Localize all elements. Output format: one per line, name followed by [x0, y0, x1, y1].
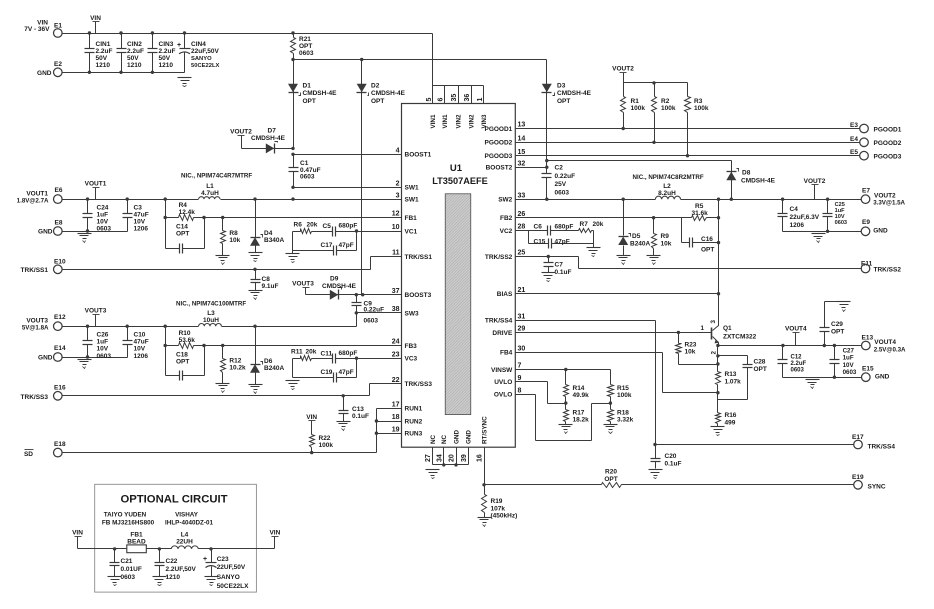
svg-text:100k: 100k	[617, 392, 632, 399]
svg-text:GND: GND	[466, 430, 473, 444]
svg-text:CMDSH-4E: CMDSH-4E	[557, 90, 592, 97]
svg-text:R18: R18	[617, 410, 629, 417]
terminal E15	[862, 365, 890, 381]
svg-text:OPT: OPT	[604, 476, 617, 483]
svg-text:R14: R14	[573, 385, 585, 392]
svg-text:R2: R2	[661, 98, 670, 105]
svg-text:C3: C3	[134, 204, 143, 211]
svg-text:3: 3	[710, 320, 717, 324]
node VOUT2 label at D7	[230, 129, 252, 149]
svg-text:50CE22LX: 50CE22LX	[191, 63, 219, 69]
wire TRK/SS4 route	[653, 321, 853, 447]
svg-text:C22: C22	[166, 558, 178, 565]
svg-text:E4: E4	[850, 136, 858, 143]
svg-text:CIN1: CIN1	[96, 41, 111, 48]
svg-text:R10: R10	[179, 330, 191, 337]
inductor L1	[199, 183, 220, 199]
svg-text:C5: C5	[323, 223, 332, 230]
svg-text:VOUT3: VOUT3	[85, 308, 107, 315]
svg-text:R20: R20	[605, 469, 617, 476]
svg-text:36: 36	[464, 94, 471, 102]
svg-text:R16: R16	[725, 412, 737, 419]
svg-text:R4: R4	[179, 202, 188, 209]
svg-text:0603: 0603	[364, 318, 379, 325]
svg-text:+: +	[177, 42, 181, 49]
svg-text:C20: C20	[665, 453, 677, 460]
node TRK/SS3 label	[21, 394, 49, 401]
ground under C20	[649, 470, 663, 479]
svg-text:OPT: OPT	[701, 247, 714, 254]
ground under C13	[337, 422, 351, 431]
svg-text:1206: 1206	[134, 353, 149, 360]
svg-text:C14: C14	[176, 224, 188, 231]
svg-text:E18: E18	[54, 441, 66, 448]
node GND label E8	[38, 229, 53, 236]
ferrite bead FB1	[127, 532, 147, 553]
svg-text:D2: D2	[371, 83, 380, 90]
svg-text:0603: 0603	[791, 367, 805, 373]
ground under R17	[559, 425, 573, 434]
svg-text:BOOST1: BOOST1	[405, 152, 432, 159]
capacitor C9	[352, 295, 385, 325]
svg-text:3.32k: 3.32k	[617, 417, 634, 424]
node VOUT2 tick right	[804, 178, 826, 200]
terminal E11	[861, 260, 901, 273]
terminal E16	[54, 385, 66, 401]
svg-text:49.9k: 49.9k	[573, 392, 590, 399]
node VOUT3 tick	[85, 308, 107, 327]
svg-text:2.2UF,50V: 2.2UF,50V	[166, 566, 197, 573]
svg-text:E6: E6	[55, 187, 63, 194]
terminal E17	[852, 434, 895, 451]
svg-text:1206: 1206	[134, 226, 149, 233]
svg-text:E15: E15	[862, 365, 874, 372]
svg-text:22: 22	[392, 377, 400, 384]
capacitor CIN4 (polarized)	[177, 34, 219, 73]
svg-text:2.2uF: 2.2uF	[96, 48, 113, 55]
svg-text:53.6k: 53.6k	[179, 337, 196, 344]
svg-text:0603: 0603	[843, 369, 857, 376]
svg-text:SANYO: SANYO	[217, 574, 240, 581]
ground at VOUT2 output	[812, 234, 826, 243]
capacitor C17 loop	[293, 229, 359, 255]
svg-text:47pF: 47pF	[339, 242, 354, 249]
terminal E6	[54, 187, 63, 203]
svg-text:TRK/SS1: TRK/SS1	[21, 267, 49, 274]
svg-text:TRK/SS2: TRK/SS2	[485, 254, 513, 261]
ground under C26 rail	[78, 360, 92, 369]
svg-text:PGOOD3: PGOOD3	[874, 154, 902, 161]
ground under C7	[542, 273, 556, 282]
svg-text:1: 1	[477, 98, 484, 102]
svg-text:16: 16	[477, 454, 484, 462]
diode D9	[306, 276, 402, 300]
svg-text:17: 17	[392, 401, 400, 408]
svg-text:D7: D7	[268, 128, 277, 135]
capacitor C13	[339, 396, 370, 422]
svg-text:31.6k: 31.6k	[692, 210, 709, 217]
svg-text:SW1: SW1	[405, 197, 419, 204]
svg-text:680pF: 680pF	[339, 350, 358, 357]
svg-text:C8: C8	[262, 276, 271, 283]
svg-text:0603: 0603	[299, 50, 314, 57]
svg-text:47uF: 47uF	[134, 211, 149, 218]
svg-text:VIN1: VIN1	[430, 114, 437, 128]
node VOUT3 label at D9	[292, 281, 314, 295]
svg-text:4: 4	[396, 148, 400, 155]
diode D7	[242, 128, 294, 154]
svg-text:B340A: B340A	[264, 237, 285, 244]
capacitor C22	[155, 549, 197, 582]
svg-text:28: 28	[518, 224, 526, 231]
svg-text:SYNC: SYNC	[868, 484, 886, 491]
svg-text:15: 15	[518, 149, 526, 156]
wire input GND rail	[62, 71, 185, 74]
capacitor C25	[823, 200, 848, 232]
svg-text:30: 30	[518, 345, 526, 352]
svg-text:D6: D6	[264, 358, 273, 365]
svg-text:IHLP-4040DZ-01: IHLP-4040DZ-01	[165, 520, 213, 527]
diode D3	[542, 60, 592, 168]
svg-text:39: 39	[461, 454, 468, 462]
svg-text:37: 37	[392, 288, 400, 295]
node NIC L3 label	[176, 301, 246, 308]
svg-text:GND: GND	[875, 374, 890, 381]
svg-text:VOUT2: VOUT2	[230, 129, 252, 136]
ground under R16	[711, 427, 725, 436]
svg-text:NIC., NPIM74C8R2MTRF: NIC., NPIM74C8R2MTRF	[633, 174, 704, 181]
svg-text:OPT: OPT	[299, 43, 312, 50]
svg-text:GND: GND	[873, 228, 888, 235]
svg-text:R15: R15	[617, 385, 629, 392]
svg-text:2: 2	[711, 351, 718, 355]
svg-text:1210: 1210	[159, 62, 174, 69]
wire BOOST2/D8 line	[545, 159, 731, 169]
svg-text:C18: C18	[176, 352, 188, 359]
svg-text:SANYO: SANYO	[191, 56, 212, 62]
node NIC L2 label	[633, 174, 704, 181]
svg-text:C4: C4	[790, 206, 799, 213]
svg-text:35: 35	[451, 94, 458, 102]
svg-text:0.1uF: 0.1uF	[352, 413, 369, 420]
svg-text:C7: C7	[555, 262, 564, 269]
ground under R9	[647, 256, 661, 265]
capacitor C15	[532, 231, 594, 249]
capacitor C11	[321, 350, 358, 364]
svg-text:10V: 10V	[134, 346, 146, 353]
wire DRIVE to Q1 base	[677, 331, 680, 334]
svg-text:R22: R22	[319, 435, 331, 442]
svg-text:0603: 0603	[121, 574, 136, 581]
svg-text:SW2: SW2	[498, 197, 512, 204]
svg-text:LT3507AEFE: LT3507AEFE	[432, 176, 487, 186]
wire RT/SYNC pin 16	[482, 448, 485, 487]
svg-text:TAIYO YUDEN: TAIYO YUDEN	[104, 512, 147, 519]
svg-text:20k: 20k	[307, 222, 318, 229]
wire U1 bottom pin stubs	[433, 448, 469, 467]
terminal E9	[861, 219, 888, 235]
wire SYNC line	[485, 484, 854, 486]
svg-text:100k: 100k	[319, 442, 334, 449]
svg-text:CIN3: CIN3	[159, 41, 174, 48]
svg-text:0603: 0603	[97, 353, 112, 360]
svg-text:R6: R6	[294, 222, 303, 229]
svg-text:DRIVE: DRIVE	[492, 330, 513, 337]
node TAIYO YUDEN label	[102, 512, 155, 527]
svg-text:NC: NC	[441, 434, 448, 444]
svg-text:TRK/SS2: TRK/SS2	[874, 267, 902, 274]
svg-text:SD: SD	[24, 451, 33, 458]
svg-text:18.2k: 18.2k	[573, 417, 590, 424]
svg-text:29: 29	[518, 326, 526, 333]
capacitor C12	[778, 346, 807, 378]
svg-text:VISHAY: VISHAY	[175, 512, 199, 519]
svg-text:499: 499	[725, 420, 736, 427]
terminal E13	[862, 334, 907, 353]
svg-text:D9: D9	[330, 276, 339, 283]
svg-text:D5: D5	[632, 233, 641, 240]
inductor L4	[171, 532, 198, 549]
svg-text:33: 33	[518, 192, 526, 199]
svg-text:RUN1: RUN1	[405, 406, 423, 413]
svg-text:C23: C23	[217, 556, 229, 563]
svg-text:VIN1: VIN1	[442, 114, 449, 128]
svg-text:C2: C2	[555, 165, 564, 172]
svg-text:BOOST2: BOOST2	[486, 165, 513, 172]
svg-text:GND: GND	[37, 70, 52, 77]
svg-text:R1: R1	[631, 98, 640, 105]
svg-text:R8: R8	[229, 230, 238, 237]
optional circuit border box	[95, 484, 257, 592]
svg-text:PGOOD1: PGOOD1	[874, 126, 902, 133]
svg-text:R23: R23	[685, 342, 697, 349]
svg-text:NIC., NPIM74C4R7MTRF: NIC., NPIM74C4R7MTRF	[181, 173, 252, 180]
terminal E4	[850, 136, 902, 147]
wire VC2 network	[529, 231, 532, 244]
node VISHAY label	[165, 512, 213, 527]
svg-text:C16: C16	[701, 236, 713, 243]
svg-text:+: +	[203, 556, 207, 563]
svg-text:4.7uH: 4.7uH	[201, 190, 219, 197]
svg-text:19: 19	[392, 426, 400, 433]
wire SD line to RUN pins	[62, 409, 379, 455]
svg-text:C13: C13	[352, 406, 364, 413]
resistor R19	[482, 485, 518, 520]
capacitor C18 loop	[166, 346, 205, 381]
svg-text:2: 2	[396, 181, 400, 188]
svg-text:10.2k: 10.2k	[229, 365, 246, 372]
svg-text:10V: 10V	[843, 362, 855, 369]
svg-text:R3: R3	[694, 98, 703, 105]
svg-text:FB1: FB1	[405, 215, 418, 222]
svg-text:0603: 0603	[555, 189, 570, 196]
resistor R10	[179, 330, 196, 349]
svg-text:TRK/SS4: TRK/SS4	[485, 318, 513, 325]
svg-text:OPTIONAL CIRCUIT: OPTIONAL CIRCUIT	[120, 494, 227, 506]
capacitor C24	[83, 200, 112, 233]
resistor R1	[621, 83, 646, 131]
svg-text:CMDSH-4E: CMDSH-4E	[322, 283, 357, 290]
svg-text:47pF: 47pF	[339, 369, 354, 376]
ground under D5	[617, 256, 631, 265]
svg-text:E5: E5	[850, 149, 858, 156]
wire VOUT2 GND rail	[783, 230, 862, 233]
capacitor C26	[83, 327, 112, 360]
svg-text:9: 9	[518, 375, 522, 382]
svg-text:20k: 20k	[593, 221, 604, 228]
resistor R5	[682, 203, 721, 221]
svg-text:VIN: VIN	[90, 15, 101, 22]
svg-text:B240A: B240A	[264, 365, 285, 372]
node VIN left tick optional	[72, 530, 83, 549]
capacitor C2	[542, 165, 576, 201]
resistor R2	[652, 83, 676, 145]
capacitor C14 loop	[166, 218, 205, 254]
diode D2	[357, 60, 406, 295]
capacitor C29	[820, 302, 845, 346]
svg-text:20: 20	[449, 454, 456, 462]
svg-text:FB MJ3216HS800: FB MJ3216HS800	[102, 520, 155, 527]
svg-text:RUN2: RUN2	[405, 418, 423, 425]
wire boost feed rail	[291, 58, 546, 61]
svg-text:CIN2: CIN2	[127, 41, 142, 48]
svg-text:10k: 10k	[685, 349, 696, 356]
node SD input label	[24, 450, 34, 459]
svg-text:OPT: OPT	[371, 98, 384, 105]
resistor R9	[652, 216, 672, 256]
svg-text:E3: E3	[850, 122, 858, 129]
wire UVLO route	[548, 382, 568, 405]
capacitor C1	[289, 155, 321, 188]
ground under D6	[249, 385, 263, 394]
svg-text:U1: U1	[450, 163, 463, 174]
svg-text:1.07k: 1.07k	[725, 379, 742, 386]
svg-text:47pF: 47pF	[555, 239, 570, 246]
wire VC1 compensation left node	[292, 232, 294, 254]
ground under C21	[108, 577, 122, 586]
ground under C22	[153, 577, 167, 586]
capacitor C5	[323, 223, 358, 237]
ground under CIN4	[178, 78, 192, 87]
svg-text:VC3: VC3	[405, 356, 418, 363]
svg-text:VOUT3: VOUT3	[26, 318, 48, 325]
capacitor CIN1	[85, 34, 113, 73]
svg-text:10k: 10k	[229, 237, 240, 244]
wire VOUT2/BIAS vertical	[718, 200, 720, 323]
svg-text:C15: C15	[534, 239, 546, 246]
svg-text:50V: 50V	[159, 55, 171, 62]
svg-text:3: 3	[396, 192, 400, 199]
svg-text:OPT: OPT	[557, 98, 570, 105]
terminal E2	[54, 61, 63, 77]
svg-text:E14: E14	[54, 345, 66, 352]
svg-text:NC: NC	[430, 434, 437, 444]
wire FB4 route	[663, 353, 718, 393]
svg-text:UVLO: UVLO	[494, 379, 512, 386]
svg-text:VIN2: VIN2	[455, 114, 462, 128]
resistor R6	[293, 222, 328, 234]
node VIN tick at input caps	[90, 15, 101, 34]
wire TRK/SS1 line	[62, 257, 371, 271]
svg-text:E10: E10	[54, 259, 66, 266]
svg-text:E16: E16	[54, 385, 66, 392]
svg-text:C12: C12	[791, 355, 803, 361]
terminal E5	[850, 149, 902, 160]
svg-text:VOUT1: VOUT1	[26, 191, 48, 198]
node VIN right tick optional	[269, 530, 280, 549]
svg-text:R5: R5	[695, 203, 704, 210]
wire VOUT1/SW1 rail	[62, 197, 402, 200]
terminal E19	[852, 474, 886, 491]
svg-text:11: 11	[392, 250, 400, 257]
wire VC3 compensation	[293, 358, 298, 360]
svg-text:VIN: VIN	[269, 530, 280, 537]
svg-text:25: 25	[518, 250, 526, 257]
svg-text:BEAD: BEAD	[127, 539, 146, 546]
svg-text:R12: R12	[229, 358, 241, 365]
wire VIN rail	[62, 31, 433, 85]
svg-text:GND: GND	[453, 430, 460, 444]
svg-text:R9: R9	[661, 233, 670, 240]
svg-text:TRK/SS3: TRK/SS3	[21, 394, 49, 401]
svg-text:R19: R19	[491, 498, 503, 505]
resistor R18	[608, 404, 634, 425]
wire SW3 link down to rail	[356, 313, 358, 327]
svg-text:PGOOD1: PGOOD1	[484, 126, 512, 133]
terminal E18	[54, 441, 66, 457]
node GND input label	[37, 70, 52, 77]
terminal E10	[54, 259, 66, 274]
svg-text:12.4k: 12.4k	[179, 209, 196, 216]
svg-text:50V: 50V	[127, 55, 139, 62]
svg-text:R21: R21	[299, 36, 311, 43]
svg-text:21: 21	[518, 287, 526, 294]
svg-text:23: 23	[392, 351, 400, 358]
ground under U1 GND pins	[426, 470, 440, 479]
svg-text:OPT: OPT	[176, 231, 189, 238]
capacitor CIN3	[148, 34, 176, 73]
svg-text:FB4: FB4	[500, 350, 513, 357]
ground under C8	[249, 291, 263, 300]
svg-text:C27: C27	[843, 348, 855, 355]
node VOUT2 rail label	[612, 66, 634, 83]
svg-text:D3: D3	[557, 83, 566, 90]
capacitor C3	[123, 200, 149, 233]
svg-text:R13: R13	[725, 371, 737, 378]
svg-text:R11: R11	[291, 349, 303, 356]
node VIN input label	[24, 20, 50, 34]
wire VOUT4 GND rail	[783, 376, 862, 379]
wire PGOOD pullup rail	[624, 81, 688, 84]
svg-text:10V: 10V	[97, 219, 109, 226]
terminal E14	[54, 345, 66, 361]
svg-text:5: 5	[426, 98, 433, 102]
capacitor C8	[251, 270, 279, 291]
ground at VOUT4 output	[806, 380, 820, 389]
svg-text:CMDSH-4E: CMDSH-4E	[303, 90, 338, 97]
svg-text:C11: C11	[321, 351, 333, 358]
svg-text:B240A: B240A	[630, 241, 651, 248]
node VOUT3 output label	[22, 318, 49, 332]
svg-text:C6: C6	[534, 224, 543, 231]
svg-text:D4: D4	[264, 230, 273, 237]
svg-text:47uF: 47uF	[134, 339, 149, 346]
svg-text:(450kHz): (450kHz)	[491, 513, 518, 520]
resistor R11	[291, 349, 328, 361]
svg-text:0.1uF: 0.1uF	[555, 269, 572, 276]
svg-text:VOUT2: VOUT2	[612, 66, 634, 73]
terminal E8	[54, 220, 63, 236]
